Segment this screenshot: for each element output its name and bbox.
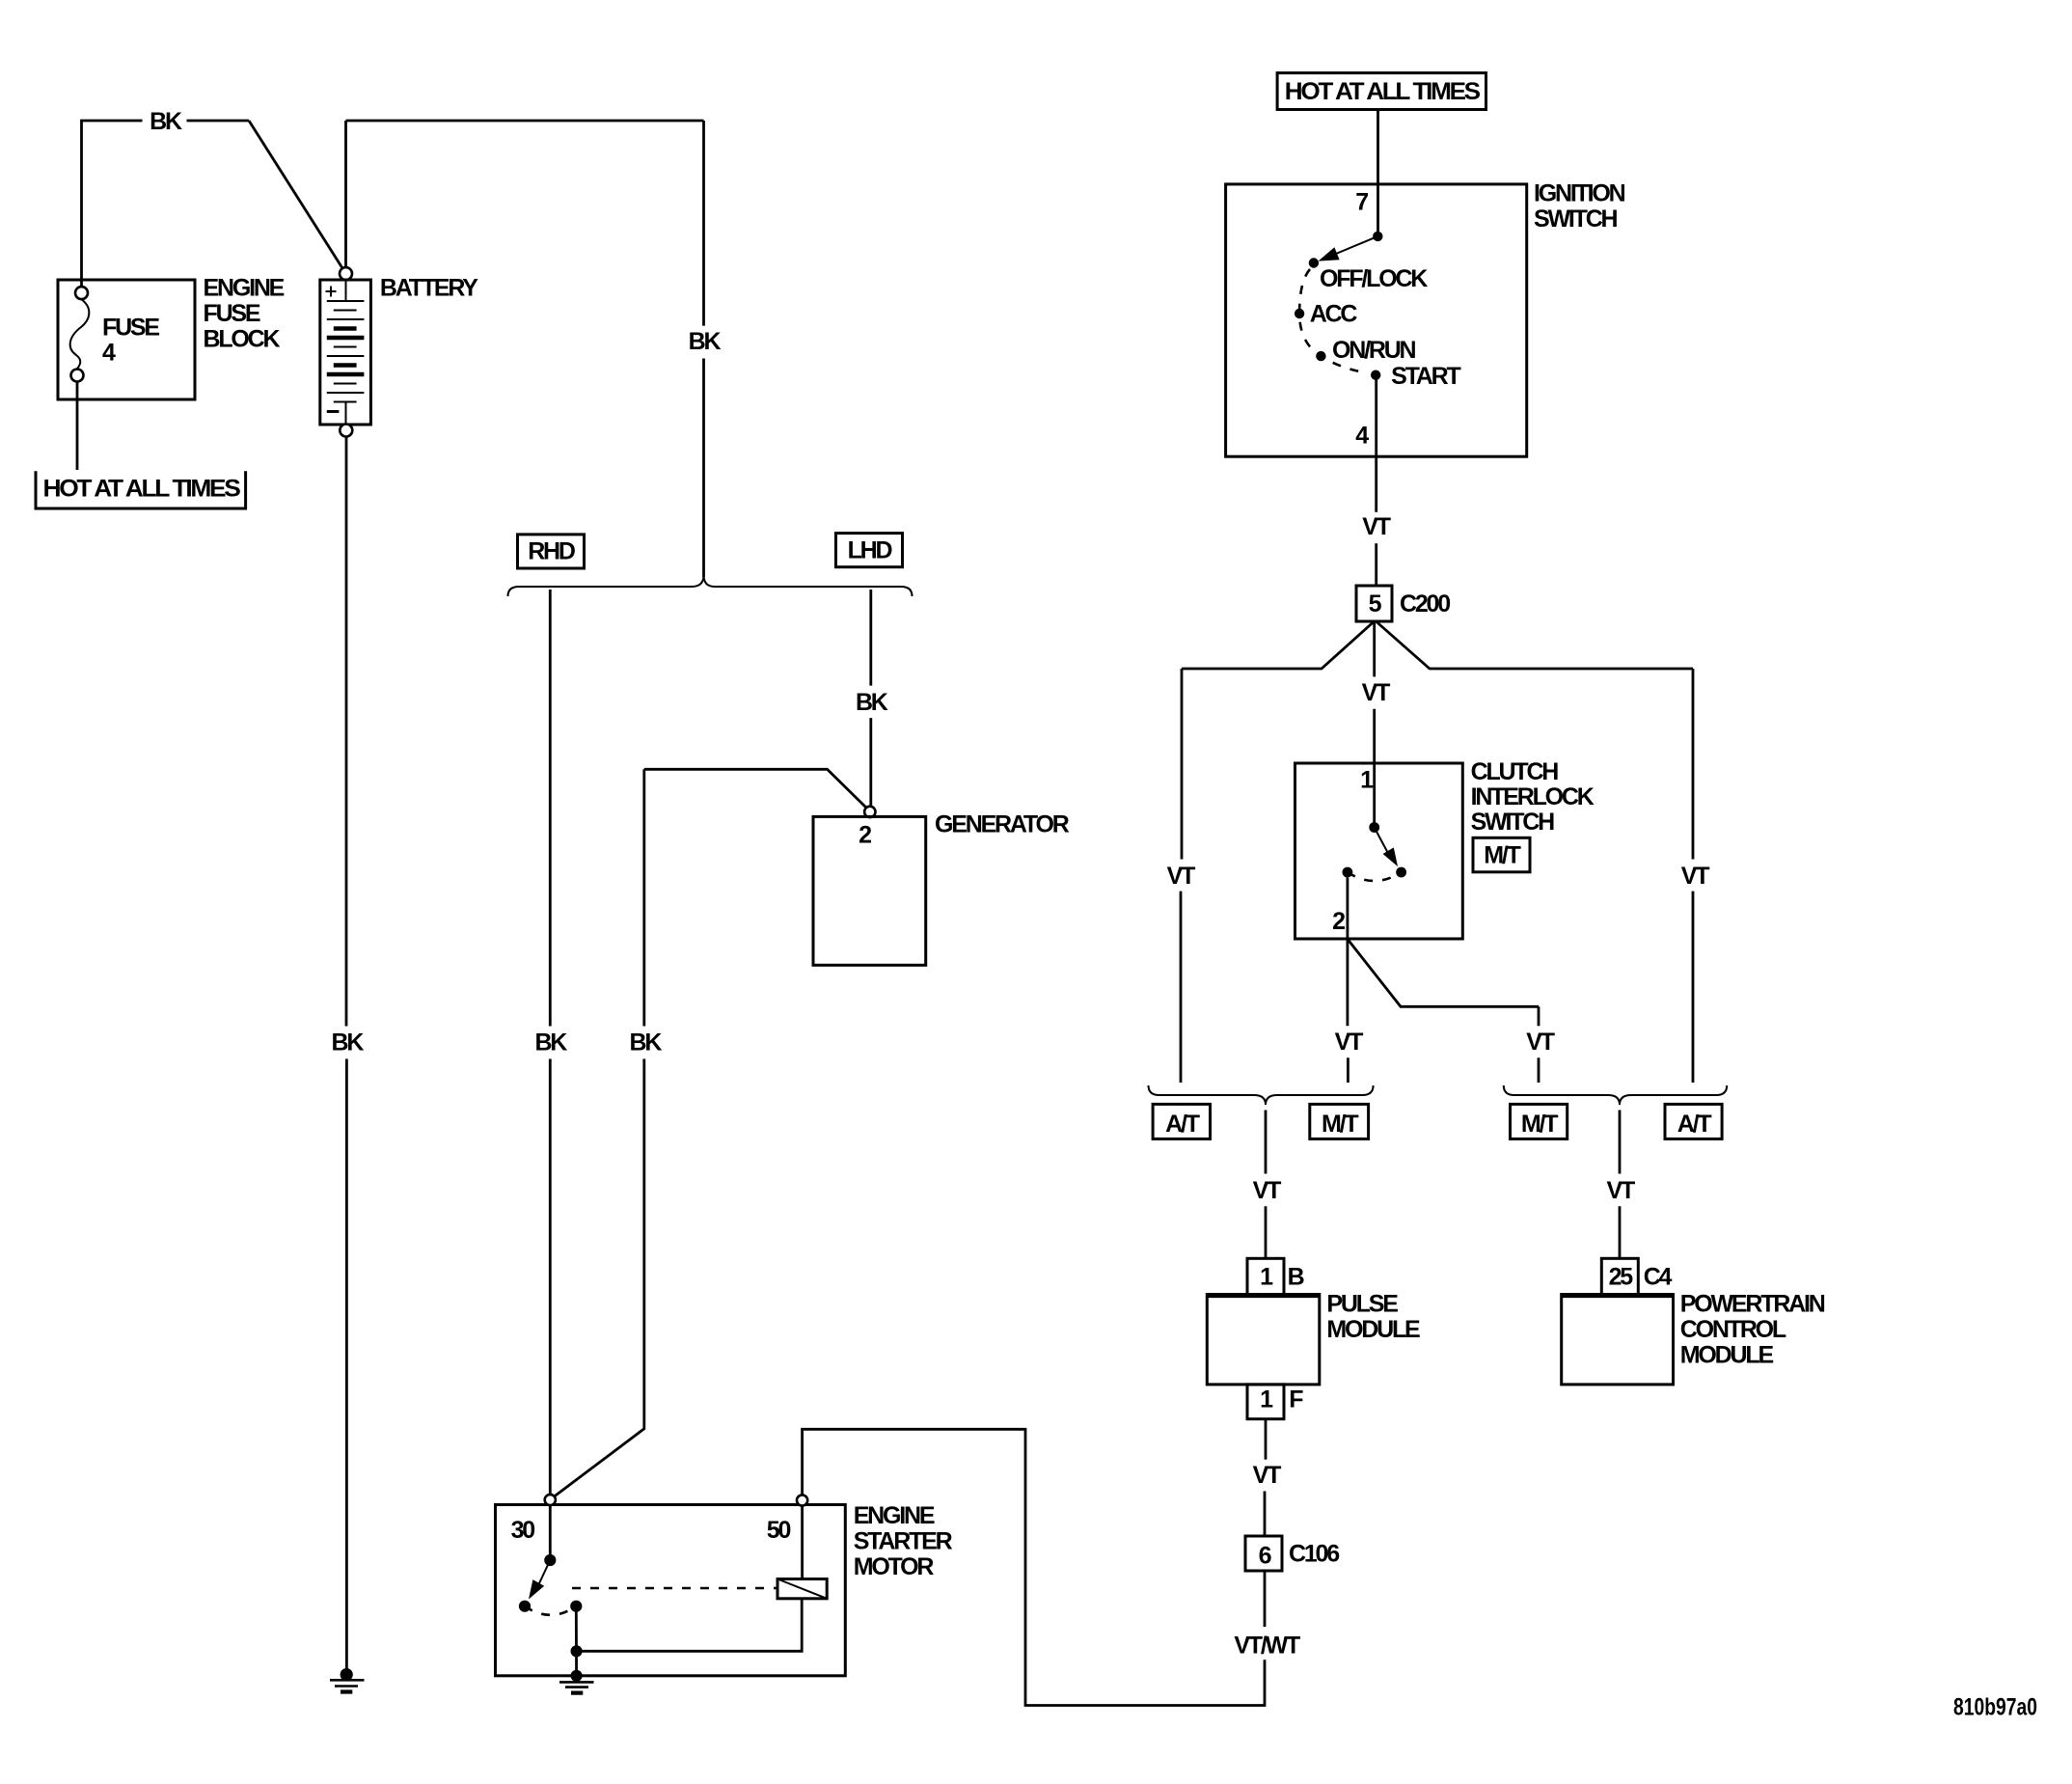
svg-text:VT: VT [1362,679,1390,706]
svg-text:A/T: A/T [1165,1111,1200,1138]
PCM pin 25 box [1601,1258,1638,1295]
brace RHD/LHD [508,575,913,596]
svg-text:A/T: A/T [1677,1111,1712,1138]
starter actuation dashed link [572,1587,777,1590]
generator wire lower + diagonal to terminal 30 [555,1059,644,1496]
LHD wire upper [869,590,872,686]
starter common wire down [575,1606,578,1676]
svg-text:M/T: M/T [1521,1111,1558,1138]
starter ground node dot [571,1670,583,1682]
svg-text:ON/RUN: ON/RUN [1332,337,1416,364]
battery internal stem bottom [345,402,347,425]
wire VT to pulse pin B [1265,1206,1268,1258]
svg-text:BK: BK [150,108,182,135]
svg-text:2: 2 [1332,908,1345,935]
generator box [813,816,926,965]
svg-text:VT: VT [1362,513,1390,540]
ignition pin 7 node dot [1373,232,1382,241]
A/T box (right) [1665,1104,1722,1139]
right M/T wire vertical [1538,1006,1540,1026]
svg-text:CONTROL: CONTROL [1680,1316,1786,1343]
RHD wire upper [549,590,552,1027]
pulse module box [1207,1295,1320,1385]
starter terminal 50 circle [797,1495,807,1505]
svg-text:BK: BK [689,328,722,355]
generator wire vertical upper [642,769,645,1026]
battery negative wire lower [345,1059,348,1670]
svg-text:4: 4 [102,339,116,366]
top horizontal wire battery to right corner [346,120,704,123]
svg-text:LHD: LHD [848,536,892,563]
clutch wiper arrowhead [1383,847,1398,866]
svg-text:PULSE: PULSE [1326,1291,1398,1318]
svg-text:VT: VT [1253,1462,1281,1489]
clutch pin 2 wire inside [1347,878,1350,940]
starter wiper arrowhead [529,1579,544,1599]
clutch travel dashed arc [1348,872,1402,881]
BK vertical upper (from top horizontal) [702,121,705,326]
svg-text:STARTER: STARTER [854,1528,953,1555]
starter contact dot (30) [544,1554,556,1566]
ignition wiper arm [1330,236,1377,257]
wire hot box to ignition pin 7 [1377,110,1379,236]
svg-text:FUSE: FUSE [204,300,260,327]
svg-text:1: 1 [1260,1264,1273,1291]
ignition detent dashed arc [1299,269,1362,372]
svg-text:C4: C4 [1644,1264,1673,1291]
BK vertical lower to brace [702,359,705,578]
svg-text:50: 50 [767,1517,791,1544]
battery plus sign [326,287,337,297]
clutch N.C. contact dot [1343,867,1353,878]
engine fuse block box [58,280,195,399]
starter N.C. contact dot [519,1601,531,1612]
clutch N.O. contact dot [1396,867,1406,878]
svg-text:25: 25 [1609,1264,1634,1291]
svg-text:SWITCH: SWITCH [1471,809,1555,836]
svg-text:F: F [1289,1386,1303,1413]
C200 center wire down [1373,622,1376,677]
svg-text:4: 4 [1355,423,1369,450]
generator output wire (horizontal+diagonal) [644,769,866,808]
svg-text:7: 7 [1355,189,1368,216]
wire C106 down [1264,1571,1267,1627]
svg-text:SWITCH: SWITCH [1534,206,1618,233]
C200 split left branch [1182,622,1374,670]
svg-text:6: 6 [1259,1542,1271,1569]
battery minus sign [327,410,340,413]
svg-text:BK: BK [332,1029,365,1056]
svg-text:C106: C106 [1289,1540,1339,1567]
clutch pin 2 wire below box [1347,939,1350,1026]
wire diagonal to battery positive [249,121,342,268]
M/T tag box (clutch) [1473,837,1530,872]
svg-text:BK: BK [534,1029,567,1056]
starter ground symbol [559,1681,594,1684]
battery internal stem top [345,280,347,301]
svg-text:OFF/LOCK: OFF/LOCK [1320,265,1428,292]
battery ground symbol [330,1679,365,1682]
svg-text:VT: VT [1253,1177,1281,1204]
svg-text:2: 2 [859,822,871,849]
svg-text:IGNITION: IGNITION [1534,179,1625,206]
hot at all times bracket (bottom-left) [36,471,246,508]
fuse terminal bottom circle [71,370,84,382]
ignition ACC contact dot [1295,309,1304,318]
C200 split right branch [1377,622,1693,670]
battery positive terminal circle [340,267,352,280]
fuse terminal top circle [75,287,88,299]
starter wire coil to terminal 50 [801,1506,804,1579]
clutch interlock switch box [1295,763,1463,939]
svg-text:VT: VT [1335,1029,1363,1056]
svg-text:30: 30 [511,1517,535,1544]
pulse module box thick top edge [1207,1294,1320,1299]
svg-text:C200: C200 [1400,590,1450,618]
svg-text:BK: BK [630,1029,663,1056]
RHD box [518,535,585,568]
pulse module pin F box [1247,1385,1284,1419]
svg-text:HOT AT ALL TIMES: HOT AT ALL TIMES [43,476,241,503]
ignition OFF/LOCK contact dot [1309,258,1319,267]
battery ground node dot [341,1668,353,1681]
wire VT/WT to starter terminal 50 [803,1429,1265,1705]
hot at all times box (top) [1277,73,1486,110]
connector C200 box [1356,586,1392,621]
LHD wire lower to generator [869,718,872,806]
battery positive riser [344,121,347,267]
brace left (A/T-M/T) [1149,1085,1374,1105]
A/T box (left) [1153,1104,1210,1139]
svg-text:HOT AT ALL TIMES: HOT AT ALL TIMES [1285,78,1481,105]
starter wiper arm [539,1560,550,1583]
M/T box (left pair) [1310,1104,1369,1139]
wire ignition pin 4 down [1375,375,1377,512]
svg-text:VT: VT [1681,863,1709,890]
svg-text:M/T: M/T [1322,1111,1358,1138]
M/T box (right pair) [1511,1104,1568,1139]
wire VT to PCM pin 25 [1619,1206,1622,1258]
starter relay coil diagonal [777,1579,827,1599]
svg-text:1: 1 [1360,767,1374,794]
svg-text:CLUTCH: CLUTCH [1471,758,1559,785]
starter common contact dot [570,1601,582,1612]
starter wire 30 to contact [549,1505,552,1560]
battery box [320,280,371,425]
svg-text:BLOCK: BLOCK [204,326,281,353]
right A/T branch vertical [1692,669,1695,860]
ignition START contact dot [1371,371,1380,380]
battery negative wire upper [345,437,348,1027]
svg-text:M/T: M/T [1484,842,1520,869]
svg-text:MODULE: MODULE [1326,1316,1420,1343]
svg-text:5: 5 [1369,590,1382,618]
RHD wire lower to starter terminal 30 [549,1059,552,1495]
ignition switch box [1226,184,1527,456]
svg-text:ENGINE: ENGINE [204,275,285,302]
connector C106 box [1245,1536,1282,1571]
svg-text:INTERLOCK: INTERLOCK [1471,783,1595,810]
starter terminal 30 circle [545,1495,556,1505]
generator terminal circle [864,807,875,817]
right A/T branch lower [1692,892,1695,1083]
svg-text:VT: VT [1526,1029,1554,1056]
starter junction dot [571,1645,583,1657]
ignition ON/RUN contact dot [1316,351,1325,361]
svg-text:1: 1 [1260,1386,1273,1413]
LHD box [836,534,903,567]
svg-text:MODULE: MODULE [1680,1342,1774,1369]
pulse module pin B box [1247,1258,1284,1295]
svg-text:POWERTRAIN: POWERTRAIN [1680,1291,1825,1318]
svg-text:GENERATOR: GENERATOR [935,811,1070,838]
svg-text:FUSE: FUSE [102,314,159,341]
svg-text:VT: VT [1167,863,1195,890]
clutch wiper arm [1375,828,1391,860]
svg-text:ACC: ACC [1310,300,1358,327]
battery cell plates [327,300,365,302]
wire fuse to hot-at-all-times [76,382,79,471]
svg-text:VT/WT: VT/WT [1234,1632,1300,1659]
svg-text:VT: VT [1607,1177,1635,1204]
svg-text:BK: BK [856,689,888,716]
fuse F4 element [70,299,90,369]
center wire to clutch switch [1373,709,1376,828]
ignition wiper arrowhead [1319,247,1340,261]
left A/T branch vertical [1181,669,1184,860]
wire brace to PCM upper [1619,1111,1622,1174]
PCM box [1562,1295,1674,1385]
starter coil return wire [577,1599,803,1652]
svg-text:B: B [1288,1264,1304,1291]
clutch pin 1 contact dot [1369,822,1379,833]
svg-text:MOTOR: MOTOR [854,1553,935,1580]
svg-text:RHD: RHD [528,538,575,565]
wire pulse pin F down [1265,1419,1268,1460]
svg-text:START: START [1391,363,1460,390]
left A/T branch lower [1180,892,1183,1083]
wire brace to pulse module upper [1265,1111,1268,1174]
battery negative terminal circle [340,425,352,437]
svg-text:ENGINE: ENGINE [854,1502,935,1529]
wire VT to C106 [1264,1492,1267,1537]
wire BK label to diagonal [187,120,250,123]
wire fuse riser to BK label [82,121,143,287]
svg-text:BATTERY: BATTERY [380,274,478,301]
starter travel dashed arc [525,1606,576,1615]
right M/T wire lower [1538,1057,1540,1083]
PCM box thick top edge [1562,1294,1674,1299]
starter motor box [496,1505,846,1676]
svg-text:810b97a0: 810b97a0 [1953,1694,2037,1721]
clutch pin 2 diagonal branch to right M/T [1349,940,1540,1006]
brace right (M/T-A/T) [1504,1085,1727,1105]
clutch M/T wire lower [1347,1057,1350,1083]
wire VT to C200 [1375,543,1377,586]
starter relay coil box [777,1579,827,1599]
